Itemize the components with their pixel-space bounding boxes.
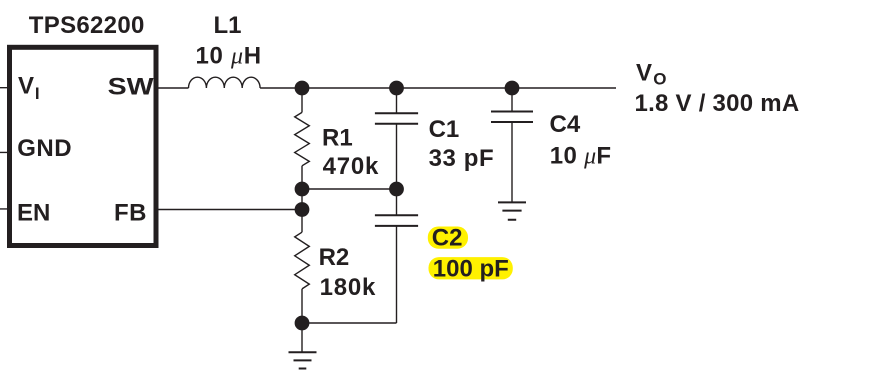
svg-text:R1: R1 (322, 124, 353, 151)
svg-text:10 μH: 10 μH (196, 43, 262, 70)
svg-text:FB: FB (114, 200, 147, 227)
svg-text:470k: 470k (323, 153, 380, 180)
svg-text:L1: L1 (214, 12, 242, 39)
svg-text:100 pF: 100 pF (433, 256, 509, 283)
svg-text:VO: VO (636, 60, 666, 89)
svg-text:TPS62200: TPS62200 (29, 12, 145, 39)
svg-text:C1: C1 (429, 116, 460, 143)
svg-text:GND: GND (17, 135, 72, 162)
svg-text:EN: EN (17, 200, 50, 227)
svg-text:1.8 V / 300 mA: 1.8 V / 300 mA (635, 90, 800, 117)
svg-text:180k: 180k (320, 274, 377, 301)
svg-text:R2: R2 (319, 244, 350, 271)
svg-text:C2: C2 (432, 225, 463, 252)
svg-text:SW: SW (108, 73, 154, 100)
svg-text:C4: C4 (550, 111, 581, 138)
svg-text:10 μF: 10 μF (550, 143, 612, 170)
svg-text:VI: VI (18, 73, 40, 103)
svg-text:33 pF: 33 pF (429, 145, 495, 172)
